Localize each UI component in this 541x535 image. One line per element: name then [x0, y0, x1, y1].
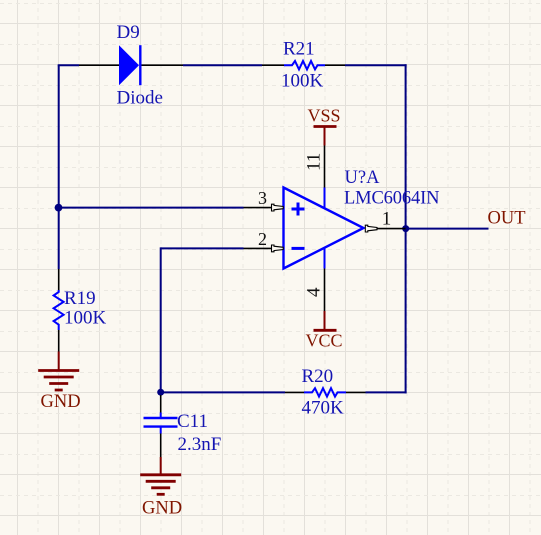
resistor R19 — [54, 269, 64, 352]
svg-text:D9: D9 — [117, 22, 140, 43]
power port VCC — [306, 311, 343, 351]
capacitor C11 — [144, 395, 178, 457]
resistor R21 — [262, 61, 345, 69]
pin 2 — [244, 245, 284, 252]
wire bottom right — [366, 391, 407, 393]
wire top middle — [183, 64, 262, 66]
wire output — [406, 228, 489, 230]
svg-text:11: 11 — [304, 153, 325, 171]
power port VSS — [308, 106, 341, 146]
pin 11 — [324, 146, 326, 188]
svg-text:VCC: VCC — [306, 331, 343, 351]
wire top stub left — [58, 64, 79, 66]
pin 3 — [244, 204, 284, 211]
svg-text:LMC6064IN: LMC6064IN — [344, 188, 440, 208]
resistor R20 — [285, 388, 366, 396]
svg-text:100K: 100K — [64, 308, 107, 329]
ground GND (R19) — [38, 352, 80, 413]
svg-text:2: 2 — [258, 229, 267, 249]
svg-text:2.3nF: 2.3nF — [178, 434, 222, 455]
wire right vertical — [405, 64, 407, 393]
svg-text:470K: 470K — [302, 398, 345, 419]
junction node A — [55, 204, 63, 212]
wire bottom left — [161, 391, 285, 393]
svg-text:4: 4 — [304, 287, 325, 297]
wire noninverting input — [59, 207, 244, 209]
diode D9 — [79, 45, 183, 85]
svg-text:GND: GND — [41, 392, 81, 412]
svg-text:R19: R19 — [64, 288, 96, 309]
wire inverting input vertical — [160, 247, 162, 392]
pin 4 — [324, 269, 326, 312]
svg-text:3: 3 — [258, 188, 267, 208]
wire top right — [345, 64, 407, 66]
junction node B — [157, 389, 164, 396]
svg-text:R21: R21 — [283, 39, 315, 60]
svg-text:100K: 100K — [281, 71, 324, 92]
svg-text:C11: C11 — [177, 411, 208, 432]
svg-text:U?A: U?A — [345, 168, 381, 188]
svg-text:OUT: OUT — [488, 209, 526, 229]
junction node OUT — [402, 225, 409, 232]
wire left vertical — [58, 65, 60, 269]
svg-text:1: 1 — [382, 208, 392, 229]
svg-text:Diode: Diode — [117, 88, 163, 109]
ground GND (C11) — [140, 457, 182, 518]
wire inverting input horizontal — [161, 247, 244, 249]
svg-text:R20: R20 — [302, 366, 334, 387]
op-amp U?A — [284, 188, 364, 269]
svg-text:VSS: VSS — [308, 106, 341, 126]
svg-text:GND: GND — [142, 498, 182, 518]
pin 1 output — [365, 225, 405, 232]
